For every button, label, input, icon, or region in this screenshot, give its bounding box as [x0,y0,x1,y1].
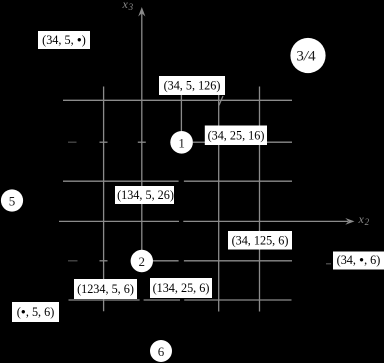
label box (34,5,126) [159,76,225,95]
svg-text:(134, 5, 26): (134, 5, 26) [117,188,174,202]
svg-text:5: 5 [9,194,16,209]
svg-text:(34, 5, •): (34, 5, •) [42,33,86,49]
label box (134,5,26) [115,186,174,204]
grid vertical line x=259 [259,87,261,312]
grid horizontal line y=181 (gap at hidden line x=181.5) [63,180,292,182]
label box (134,25,6) [150,278,212,298]
row-2 line right of circle2 (gap at x=181.5) [153,260,292,262]
row-1 connector circle1 to box [193,141,205,143]
node circle 1 [170,131,193,154]
svg-text:3/4: 3/4 [296,49,316,65]
svg-text:(34, 25, 16): (34, 25, 16) [208,129,265,143]
grid vertical line x=219 [218,87,220,312]
axis x3 vertical (arrow top) [138,7,145,250]
axis x2 horizontal (gap at x=181.5, arrow right) [59,218,355,225]
svg-text:2: 2 [139,254,146,269]
connector box (34,5,126) to circle 1 [180,95,182,131]
row-2 faint dash near box (34,bullet,6) [326,263,331,265]
row-1 tick at x=104 [100,141,108,143]
svg-text:(34, 5, 126): (34, 5, 126) [164,79,221,93]
node circle 5 [1,189,23,211]
svg-text:(134, 25, 6): (134, 25, 6) [153,281,210,295]
label box (1234,5,6) [74,279,137,299]
label box (34,25,16) [205,126,267,146]
grid horizontal line y=100 [63,99,292,101]
node circle 6 [150,340,172,362]
svg-text:x3: x3 [122,0,134,12]
label box (34,5,bullet) [38,31,90,49]
svg-text:(1234, 5, 6): (1234, 5, 6) [77,282,134,296]
label box (34,bullet,6) [333,252,384,270]
grid horizontal line y=300 (gaps at x=141.8 and x=181.5) [69,299,292,301]
label box (34,125,6) [228,231,292,250]
row-2 dim dash left [68,260,78,262]
svg-text:6: 6 [158,344,165,359]
svg-text:(34, 125, 6): (34, 125, 6) [232,234,289,248]
row-2 tick at x=104 [100,260,108,262]
row-1 tick at x=142 [138,141,146,143]
row-1 line right of box [267,141,292,143]
svg-text:(•, 5, 6): (•, 5, 6) [17,305,55,321]
diagonal jog at box (34,5,126) corner [219,96,223,106]
svg-text:1: 1 [178,135,185,150]
svg-text:(34, •, 6): (34, •, 6) [337,253,381,269]
row-1 dim dash left [68,141,77,143]
node circle 3/4 [290,38,325,73]
node circle 2 [131,250,153,272]
label box (bullet,5,6) [12,302,59,322]
grid vertical line x=104 [103,87,105,312]
